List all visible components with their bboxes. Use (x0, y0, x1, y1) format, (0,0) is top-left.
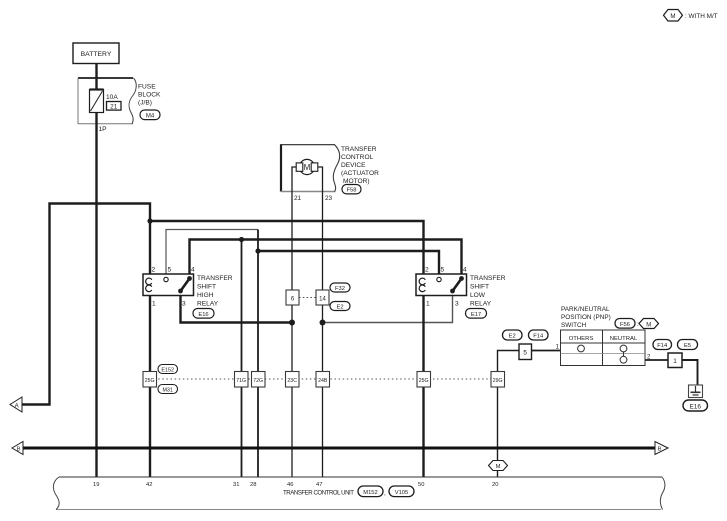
wire terminal 1 to ground (682, 360, 698, 385)
connector box 23C (pin46 line) (286, 372, 300, 388)
svg-text:72G: 72G (253, 378, 263, 384)
wire PNP to terminal 1 (645, 359, 668, 361)
dotted connector link 6-14 (299, 297, 316, 299)
connector E2 (330, 302, 350, 311)
svg-text:3: 3 (455, 301, 459, 308)
low relay blade (450, 276, 464, 293)
page arrow A (10, 397, 22, 412)
device label text (341, 146, 379, 185)
svg-text:E2: E2 (336, 305, 343, 311)
svg-text:23: 23 (325, 195, 333, 202)
svg-text:TRANSFER: TRANSFER (197, 275, 233, 282)
fuse number 21 box (107, 102, 122, 111)
wire TCU pin 20 up to connector 5 (498, 351, 520, 478)
svg-text:: WITH M/T: : WITH M/T (685, 13, 718, 20)
svg-text:BLOCK: BLOCK (138, 92, 161, 99)
svg-text:M: M (304, 163, 311, 172)
wire motor pin 21 down to connector 6 (292, 167, 296, 290)
battery B1 (73, 43, 119, 64)
TCU box (53, 477, 665, 510)
connector E16 (high relay) (193, 309, 214, 319)
transfer control device box (280, 145, 340, 192)
svg-text:,: , (384, 490, 386, 497)
wire from arrow A up and over to relay feed (22, 204, 150, 405)
svg-text:M: M (646, 322, 651, 328)
legend hexagon M top right (664, 10, 683, 22)
M hexagon on pin 20 wire (489, 461, 508, 471)
svg-text:24B: 24B (318, 378, 328, 384)
svg-text:71G: 71G (236, 378, 246, 384)
connector 6 box (286, 290, 299, 305)
low relay pin3 wire to node (323, 296, 453, 323)
connector E17 (low relay) (466, 309, 487, 319)
svg-text:SHIFT: SHIFT (470, 284, 489, 291)
wire low relay pin1 to TCU pin 50 (422, 296, 424, 478)
svg-text:SHIFT: SHIFT (197, 284, 216, 291)
connector 14 box (316, 290, 329, 305)
actuator motor M symbol (296, 159, 318, 174)
connector F14 (right) (653, 340, 672, 350)
svg-text:BATTERY: BATTERY (81, 51, 112, 58)
svg-text:RELAY: RELAY (197, 301, 219, 308)
svg-text:(ACTUATOR: (ACTUATOR (341, 170, 379, 177)
svg-text:A: A (15, 403, 19, 409)
svg-text:23C: 23C (287, 378, 297, 384)
wire fuse to TCU pin 19 (95, 113, 97, 478)
svg-text::: : (637, 321, 639, 328)
hexagon M (with MT) (639, 319, 659, 329)
svg-text:5: 5 (441, 267, 445, 274)
connector E2 (left of switch) (503, 330, 523, 340)
svg-text:E16: E16 (690, 404, 702, 411)
svg-text:M152: M152 (363, 490, 378, 496)
node J4 motor21 junction (289, 320, 295, 326)
svg-text:E5: E5 (684, 343, 691, 349)
svg-text:FUSE: FUSE (138, 84, 156, 91)
svg-text:21: 21 (110, 104, 118, 111)
connector M31 (158, 385, 178, 394)
PNP switch table (561, 330, 646, 366)
svg-text:4: 4 (463, 267, 467, 274)
svg-text:28: 28 (250, 482, 256, 488)
svg-text:21: 21 (294, 195, 302, 202)
wire high relay pin1 to TCU pin 42 (149, 296, 151, 478)
svg-text:1: 1 (152, 301, 156, 308)
svg-text:5: 5 (523, 350, 527, 357)
svg-text:TRANSFER CONTROL UNIT: TRANSFER CONTROL UNIT (283, 490, 354, 497)
svg-text:V105: V105 (395, 490, 409, 496)
low relay box (416, 274, 467, 296)
svg-text:5: 5 (168, 267, 172, 274)
connector M4 (140, 110, 160, 120)
page arrow B left (12, 442, 23, 455)
svg-text:1P: 1P (99, 126, 108, 133)
connector F14 (left of switch) (529, 330, 549, 340)
wire motor pin 23 down to connector 14 (318, 167, 322, 290)
svg-text:20: 20 (492, 482, 498, 488)
svg-text:F14: F14 (657, 343, 668, 349)
svg-text:F32: F32 (335, 286, 345, 292)
wire battery to fuse block (95, 64, 97, 91)
connector E16 (ground) (683, 400, 708, 411)
terminal box 1 (668, 353, 682, 368)
high relay pin5 contact circle (164, 277, 168, 281)
low relay pin5 contact circle (437, 277, 441, 281)
svg-text:M: M (496, 464, 501, 470)
svg-text:M31: M31 (162, 387, 173, 393)
svg-text:4: 4 (191, 267, 195, 274)
low relay label (470, 275, 506, 308)
connector box 24B (pin47 line) (316, 372, 330, 388)
svg-text:31: 31 (233, 482, 239, 488)
connector box 71G (pin31 line) (235, 372, 249, 388)
node J5 motor23 junction (320, 320, 326, 326)
svg-text:POSITION (PNP): POSITION (PNP) (561, 314, 611, 321)
svg-text:46: 46 (287, 482, 293, 488)
svg-text:1: 1 (426, 301, 430, 308)
svg-text:OTHERS: OTHERS (569, 336, 594, 342)
svg-text:M4: M4 (146, 113, 155, 119)
fuse block J/B box (78, 78, 161, 124)
svg-text:1: 1 (556, 344, 560, 351)
connector box 72G (pin28 line) (252, 372, 266, 388)
wire feed to low relay pin 2 (150, 221, 424, 274)
high relay blade (178, 276, 192, 293)
svg-text:19: 19 (93, 482, 99, 488)
connector box 25G (pin42 line) (143, 372, 157, 388)
svg-text:1: 1 (673, 358, 677, 365)
node J2 pin5 branch (255, 248, 260, 253)
svg-text:25G: 25G (419, 378, 429, 384)
svg-text:RELAY: RELAY (470, 301, 492, 308)
svg-text:2: 2 (152, 267, 156, 274)
high relay pin4 wire (190, 240, 462, 275)
high relay box (143, 274, 194, 296)
svg-text:25G: 25G (145, 378, 155, 384)
svg-text:14: 14 (319, 297, 326, 303)
connector box 25G (pin50 line) (417, 372, 431, 388)
high relay pin5 wire (166, 230, 258, 275)
connector box 29G (pin20 line) (491, 372, 505, 388)
terminal box 5 (519, 344, 532, 360)
high relay pin numbers (152, 267, 196, 308)
svg-text:F58: F58 (347, 188, 357, 194)
connector E152 (158, 365, 178, 374)
svg-text:DEVICE: DEVICE (341, 162, 366, 169)
svg-text:M: M (670, 13, 675, 20)
svg-text:F56: F56 (620, 322, 630, 328)
connector F56 (615, 319, 635, 329)
bus wire B (22, 447, 655, 450)
wire box5 to PNP switch (532, 350, 561, 352)
low relay pin numbers (425, 267, 467, 308)
connector E5 (right) (678, 340, 698, 350)
svg-text:B: B (17, 447, 21, 453)
node J1 (feed branch) (147, 218, 152, 223)
svg-text:50: 50 (418, 482, 424, 488)
high relay label (197, 275, 233, 308)
connector M152 (358, 486, 383, 497)
svg-text:F14: F14 (533, 334, 544, 340)
svg-text:NEUTRAL: NEUTRAL (610, 336, 638, 342)
connector F32 (330, 283, 350, 292)
connector V105 (389, 486, 414, 497)
svg-text:E16: E16 (198, 312, 208, 318)
svg-text:LOW: LOW (470, 292, 486, 299)
intermediate connector dotted line (150, 378, 497, 380)
svg-text:PARK/NEUTRAL: PARK/NEUTRAL (561, 306, 610, 313)
TCU pin labels (93, 482, 498, 488)
svg-text:E152: E152 (161, 367, 174, 373)
PNP switch label (561, 306, 611, 329)
svg-text:47: 47 (316, 482, 322, 488)
switch contact circles (578, 345, 585, 352)
svg-text:42: 42 (146, 482, 152, 488)
svg-text:(J/B): (J/B) (138, 100, 152, 107)
svg-text:TRANSFER: TRANSFER (341, 146, 377, 153)
wire to low relay pin5 (258, 251, 439, 274)
svg-text:CONTROL: CONTROL (341, 154, 374, 161)
svg-text:3: 3 (182, 301, 186, 308)
low relay coil (419, 278, 425, 292)
svg-text:10A: 10A (106, 94, 118, 101)
wire connector6 to TCU pin 46 (291, 305, 293, 477)
high relay coil (146, 278, 152, 292)
wire connector14 to TCU pin 47 (322, 305, 324, 477)
connector F58 (342, 185, 361, 194)
svg-text:E17: E17 (471, 312, 481, 318)
svg-text:29G: 29G (493, 378, 503, 384)
node J3 pin4 branch (239, 237, 244, 242)
svg-text:SWITCH: SWITCH (561, 322, 587, 329)
ground symbol (689, 385, 703, 398)
fuse 10A (90, 90, 119, 113)
svg-text:TRANSFER: TRANSFER (470, 275, 506, 282)
svg-text:HIGH: HIGH (197, 292, 214, 299)
high relay pin3 wire to node (181, 296, 293, 323)
svg-text:2: 2 (425, 267, 429, 274)
page arrow B right (655, 442, 668, 455)
svg-text:B: B (658, 447, 662, 453)
svg-text:E2: E2 (509, 334, 516, 340)
wire branch down to TCU 31 (241, 240, 243, 478)
